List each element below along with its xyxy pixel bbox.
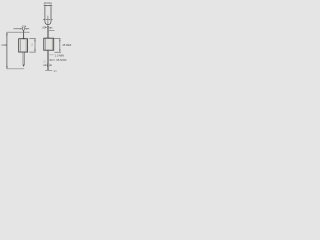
vertical center line of capsule <box>47 16 49 27</box>
bottom extension line at lead tip (right view) <box>45 69 52 71</box>
lead-to-body fillets <box>46 37 48 38</box>
top lead wire (right view), outlined <box>47 26 48 38</box>
lead diameter dimension near tip (right view) <box>43 64 52 67</box>
bottom lead wire (right view), outlined <box>48 50 49 70</box>
svg-text:.05 NOM: .05 NOM <box>56 58 68 62</box>
overall length vertical dimension line with arrows <box>6 33 7 69</box>
body (right view) <box>44 38 54 50</box>
capsule / end-on profile with rounded bottom <box>45 7 51 25</box>
body (left view) <box>19 39 28 52</box>
lead tip arrow (left view) <box>23 65 25 67</box>
svg-text:.19 DIA: .19 DIA <box>43 1 52 5</box>
body length dimension (right of right body) <box>54 39 61 53</box>
body length dimension (right of left body) <box>29 38 35 52</box>
background <box>0 0 80 80</box>
lead diameter dimension line (left view) <box>14 28 30 31</box>
svg-text:1.0 MIN: 1.0 MIN <box>55 53 64 57</box>
top extension line for overall length <box>7 31 30 33</box>
lead-to-body fillets (left view) <box>22 37 23 38</box>
bottom lead wire (left view), outlined <box>23 52 24 65</box>
svg-text:1.00: 1.00 <box>1 43 7 47</box>
lead-top extension line (right view) <box>49 29 55 31</box>
horizontal dashed center line of capsule <box>43 18 53 20</box>
body diameter dimension line (top) <box>44 5 53 7</box>
bottom extension line for overall length <box>7 68 25 70</box>
svg-text:.35 REF: .35 REF <box>62 43 72 47</box>
top lead wire (left view) <box>23 30 25 39</box>
svg-text:.034: .034 <box>21 24 27 28</box>
lead diameter arrows (right view) <box>45 27 52 29</box>
svg-text:.03: .03 <box>53 70 57 73</box>
leader with note line 1 <box>50 54 54 56</box>
leader with note line 2 <box>49 59 55 60</box>
